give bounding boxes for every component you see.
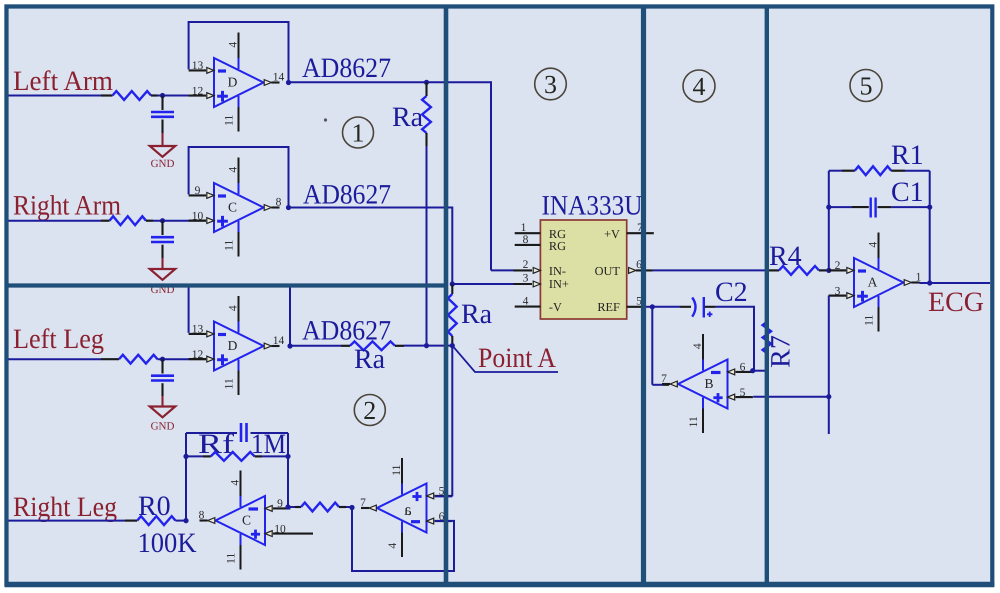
svg-text:5: 5 xyxy=(740,387,746,399)
node Point A xyxy=(450,343,455,348)
wire pin 6 to R7 bottom xyxy=(753,370,767,372)
svg-text:13: 13 xyxy=(192,324,204,336)
resistor R4 xyxy=(769,269,779,271)
section number 3 xyxy=(535,68,567,100)
wire IN- riser down xyxy=(490,81,492,270)
op-amp B bottom power pin 11 xyxy=(702,398,704,409)
section number 1 xyxy=(343,117,374,148)
svg-text:11: 11 xyxy=(864,315,876,326)
op-amp B pin 6 (top input) xyxy=(736,371,753,373)
node C1 left junction xyxy=(826,205,831,210)
node Right Arm RC junction xyxy=(160,218,165,223)
svg-text:IN+: IN+ xyxy=(549,277,569,291)
wire Ra1 to Point A xyxy=(426,146,428,346)
wire pin2 node up to C1/R1 xyxy=(828,171,830,271)
node Rf left junction xyxy=(183,454,188,459)
wire IN+ riser down xyxy=(451,207,453,285)
resistor Rf xyxy=(186,455,203,457)
stray dot xyxy=(324,118,327,121)
svg-text:D: D xyxy=(228,75,238,90)
wire REF down to op-amp B output xyxy=(651,307,653,385)
svg-text:11: 11 xyxy=(688,416,700,427)
wire buffer feedback pin 6 loop xyxy=(352,508,454,572)
wire feedback right vertical xyxy=(929,171,931,283)
resistor Ra vertical (Left Arm) xyxy=(425,82,427,96)
wire ECG output xyxy=(920,282,991,284)
wire Cf right vertical xyxy=(287,433,289,456)
resistor between pin 9 and buffer output xyxy=(288,506,295,508)
svg-text:14: 14 xyxy=(273,335,285,347)
node Rf right junction xyxy=(285,454,290,459)
svg-text:Left Leg: Left Leg xyxy=(13,324,104,355)
svg-text:11: 11 xyxy=(226,553,238,564)
op-amp C bottom power pin 11 xyxy=(240,534,242,545)
wire Point A leader line xyxy=(452,346,558,372)
svg-text:100K: 100K xyxy=(138,528,197,559)
wire pin 10 stub xyxy=(290,533,313,535)
divider region 2/3 vertical xyxy=(444,7,449,585)
svg-text:OUT: OUT xyxy=(595,264,621,278)
capacitor C1 feedback branch xyxy=(829,206,852,208)
divider region 3/4 vertical xyxy=(641,7,646,585)
svg-text:10: 10 xyxy=(192,210,204,222)
capacitor C2 plates xyxy=(692,298,695,317)
node op-amp C output xyxy=(286,205,291,210)
op-amp D pin 14 (output) xyxy=(264,343,271,349)
capacitor C2 wire right xyxy=(705,306,716,308)
op-amp B pin 7 (output) xyxy=(670,381,677,387)
svg-text:C: C xyxy=(228,200,237,215)
svg-text:1: 1 xyxy=(521,222,527,234)
node op-amp D output xyxy=(286,80,291,85)
op-amp C pin 9 (top input) xyxy=(273,507,290,509)
wire Left Arm input xyxy=(8,95,101,97)
capacitor Cf top branch xyxy=(186,432,237,434)
op-amp C pin 10 (non-inverting input) xyxy=(189,220,206,222)
resistor Ra vertical (Right Arm to Point A) xyxy=(451,284,453,294)
svg-text:9: 9 xyxy=(195,185,201,197)
svg-text:GND: GND xyxy=(151,421,175,433)
op-amp a top power pin 11 xyxy=(401,484,403,495)
op-amp A V+ power pin 4 xyxy=(878,258,880,269)
wire op-amp C feedback loop xyxy=(189,147,289,208)
wire op-amp D output to IN- riser xyxy=(289,81,492,83)
node buffer output junction xyxy=(349,505,354,510)
op-amp D pin 12 (non-inverting input) xyxy=(189,95,206,97)
node pin 6 junction xyxy=(750,368,755,373)
ground Right Arm GND xyxy=(150,269,175,280)
op-amp D V+ power pin 4 xyxy=(238,322,240,333)
svg-text:4: 4 xyxy=(228,305,240,311)
svg-text:AD8627: AD8627 xyxy=(302,53,391,84)
wire op-amp D feedback loop xyxy=(189,22,289,83)
svg-text:INA333U: INA333U xyxy=(542,191,643,222)
svg-text:Left Arm: Left Arm xyxy=(13,66,113,97)
svg-text:+V: +V xyxy=(604,227,620,241)
op-amp A pin 1 (output) xyxy=(904,280,911,286)
op-amp D V- power pin 11 xyxy=(238,360,240,371)
op-amp D triangle xyxy=(214,322,264,371)
wire Right Leg input xyxy=(8,520,125,522)
svg-text:Point A: Point A xyxy=(478,343,557,374)
svg-text:R1: R1 xyxy=(891,140,924,171)
resistor Left Arm series (lead) xyxy=(101,94,113,96)
ground Left Leg GND xyxy=(150,407,175,418)
svg-text:4: 4 xyxy=(228,42,240,48)
capacitor Left Leg shunt xyxy=(161,359,163,373)
wire Right Arm input xyxy=(8,220,101,222)
op-amp C triangle xyxy=(214,183,264,232)
svg-text:12: 12 xyxy=(192,349,204,361)
divider region 1/2 horizontal xyxy=(5,283,447,287)
svg-text:5: 5 xyxy=(860,72,873,101)
svg-text:Right Arm: Right Arm xyxy=(13,191,121,222)
capacitor C2 wire left xyxy=(652,306,680,308)
capacitor Right Arm shunt xyxy=(161,221,163,235)
svg-text:a: a xyxy=(404,500,412,519)
svg-text:9: 9 xyxy=(277,498,283,510)
resistor Left Leg series xyxy=(101,358,119,360)
svg-text:4: 4 xyxy=(523,296,529,308)
svg-text:4: 4 xyxy=(692,343,704,349)
capacitor Left Arm shunt xyxy=(161,96,163,111)
svg-text:RG: RG xyxy=(549,239,566,253)
svg-text:AD8627: AD8627 xyxy=(302,316,391,347)
svg-text:4: 4 xyxy=(387,543,399,549)
wire Left Leg input xyxy=(8,358,101,360)
svg-text:Right Leg: Right Leg xyxy=(13,492,117,523)
node op-amp D2 output xyxy=(287,343,292,348)
svg-text:1: 1 xyxy=(352,119,365,148)
wire buffer pin 5 from Point A riser xyxy=(435,495,453,497)
node Point A left junction xyxy=(424,343,429,348)
svg-text:2: 2 xyxy=(523,259,529,271)
svg-text:REF: REF xyxy=(597,300,620,314)
svg-text:13: 13 xyxy=(192,60,204,72)
svg-text:8: 8 xyxy=(523,234,529,246)
INA333U pin 4 -V xyxy=(515,306,541,308)
wire op-amp D2 output xyxy=(290,345,341,347)
node C1 right junction xyxy=(927,205,932,210)
wire OUT to R4 xyxy=(653,269,769,271)
svg-text:Ra: Ra xyxy=(461,299,493,330)
divider region 4/5 vertical xyxy=(765,7,769,585)
section number 4 xyxy=(683,70,715,102)
svg-text:11: 11 xyxy=(391,464,403,475)
svg-text:2: 2 xyxy=(363,396,376,425)
op-amp D pin 13 (inverting input) xyxy=(189,69,206,71)
svg-text:3: 3 xyxy=(544,70,557,99)
op-amp C top power pin 4 xyxy=(240,496,242,507)
op-amp a pin 5 (top input) xyxy=(435,495,452,497)
resistor R7 vertical xyxy=(766,270,768,322)
op-amp a triangle xyxy=(377,484,427,533)
op-amp C pin 9 (inverting input) xyxy=(189,194,206,196)
svg-text:8: 8 xyxy=(276,196,282,208)
svg-text:Ra: Ra xyxy=(392,102,424,133)
node op-amp A output xyxy=(927,280,932,285)
INA333U pin 8 RG xyxy=(515,244,541,246)
svg-text:7: 7 xyxy=(360,497,366,509)
op-amp B pin 5 (bottom input) xyxy=(736,396,753,398)
INA333U pin 3 IN+ xyxy=(452,283,513,285)
svg-text:4: 4 xyxy=(230,480,242,486)
svg-text:A: A xyxy=(868,275,878,290)
op-amp a bottom power pin 4 xyxy=(401,522,403,533)
svg-text:ECG: ECG xyxy=(928,287,984,318)
svg-text:C: C xyxy=(242,513,251,528)
node op-amp A pin 2 junction xyxy=(826,268,831,273)
svg-text:D: D xyxy=(228,338,238,353)
svg-text:AD8627: AD8627 xyxy=(303,180,391,211)
svg-text:C2: C2 xyxy=(715,277,748,308)
op-amp C pin 10 (bottom input) xyxy=(273,533,290,535)
op-amp D pin 12 (non-inverting input) xyxy=(189,358,206,360)
svg-text:IN-: IN- xyxy=(549,264,566,278)
wire to op-amp D pin 12 xyxy=(158,95,189,97)
resistor Right Arm series xyxy=(101,220,110,222)
svg-text:12: 12 xyxy=(192,85,204,97)
ground Left Arm GND xyxy=(150,146,175,157)
wire C2 down to pin 6 xyxy=(753,306,755,371)
node IN+ junction xyxy=(450,281,455,286)
node pin3/pin5 junction xyxy=(826,394,831,399)
resistor Left Arm series zigzag xyxy=(113,91,152,100)
svg-text:B: B xyxy=(704,376,713,391)
resistor R1 top feedback xyxy=(829,170,842,172)
node Left Leg RC junction xyxy=(160,357,165,362)
wire Point A down to buffer pin 5 xyxy=(451,346,453,497)
svg-text:4: 4 xyxy=(228,167,240,173)
wire pin 3 down to pin5 net xyxy=(828,296,830,434)
op-amp C V+ power pin 4 xyxy=(238,183,240,194)
op-amp A pin 2 (inverting input) xyxy=(829,269,846,271)
op-amp C pin 8 (output) xyxy=(208,518,215,524)
svg-text:3: 3 xyxy=(523,273,529,285)
svg-text:4: 4 xyxy=(693,72,706,101)
svg-text:11: 11 xyxy=(224,378,236,389)
svg-text:11: 11 xyxy=(224,240,236,251)
resistor R0 xyxy=(125,519,137,521)
op-amp D V- power pin 11 xyxy=(238,96,240,107)
op-amp C pin 8 (output) xyxy=(264,205,271,211)
op-amp A pin 3 (non-inverting input) xyxy=(829,295,846,297)
op-amp A V- power pin 11 xyxy=(878,296,880,307)
op-amp C V- power pin 11 xyxy=(238,221,240,232)
section number 5 xyxy=(850,70,882,102)
node pin 8 junction xyxy=(183,518,188,523)
op-amp D pin 14 (output) xyxy=(264,80,271,86)
svg-text:6: 6 xyxy=(740,362,746,374)
section number 2 xyxy=(354,395,385,426)
svg-text:8: 8 xyxy=(199,509,205,521)
op-amp D V+ power pin 4 xyxy=(238,58,240,69)
svg-text:R4: R4 xyxy=(769,241,802,272)
op-amp a pin 6 (bottom input) xyxy=(435,520,452,522)
svg-text:11: 11 xyxy=(224,115,236,126)
INA333U pin 7 +V xyxy=(627,232,654,234)
node pin 9 junction xyxy=(285,504,290,509)
resistor Ra horizontal (Left Leg) xyxy=(341,345,350,347)
wire Rf feedback left vertical xyxy=(185,433,187,521)
op-amp D pin 13 (inverting input) xyxy=(189,333,206,335)
op-amp B triangle xyxy=(678,360,728,409)
node Left Arm RC junction xyxy=(160,93,165,98)
node REF junction xyxy=(650,304,655,309)
wire to Point A xyxy=(404,345,452,347)
INA333U pin 2 IN- xyxy=(491,269,514,271)
svg-text:7: 7 xyxy=(661,373,667,385)
svg-text:Ra: Ra xyxy=(354,344,386,375)
svg-text:1: 1 xyxy=(916,271,922,283)
wire to op-amp D2 pin 12 xyxy=(158,358,189,360)
wire op-amp B pin 5 net xyxy=(753,396,829,398)
IC INA333U body xyxy=(540,220,626,319)
svg-text:GND: GND xyxy=(151,158,175,170)
wire op-amp C output to IN+ riser xyxy=(289,207,453,209)
svg-text:C1: C1 xyxy=(891,177,924,208)
svg-text:R7: R7 xyxy=(766,335,797,368)
op-amp C triangle xyxy=(216,496,266,545)
node Ra1 top junction xyxy=(424,80,429,85)
wire pin 3 lead xyxy=(829,295,846,297)
wire op-amp D2 feedback loop xyxy=(189,286,290,347)
svg-text:10: 10 xyxy=(274,523,286,535)
op-amp A triangle xyxy=(854,258,904,307)
op-amp a pin 7 (output) xyxy=(369,505,376,511)
op-amp B top power pin 4 xyxy=(702,360,704,371)
svg-text:4: 4 xyxy=(868,242,880,248)
wire Rf right vertical to pin 9 xyxy=(287,456,289,507)
INA333U pin 5 REF xyxy=(627,306,647,308)
wire to op-amp C pin 10 xyxy=(153,220,189,222)
op-amp D triangle xyxy=(214,58,264,107)
svg-text:14: 14 xyxy=(273,71,285,83)
INA333U pin 6 OUT xyxy=(629,268,636,274)
wire pin 2 lead xyxy=(829,269,846,271)
INA333U pin 1 RG xyxy=(515,232,541,234)
svg-text:-V: -V xyxy=(549,300,562,314)
